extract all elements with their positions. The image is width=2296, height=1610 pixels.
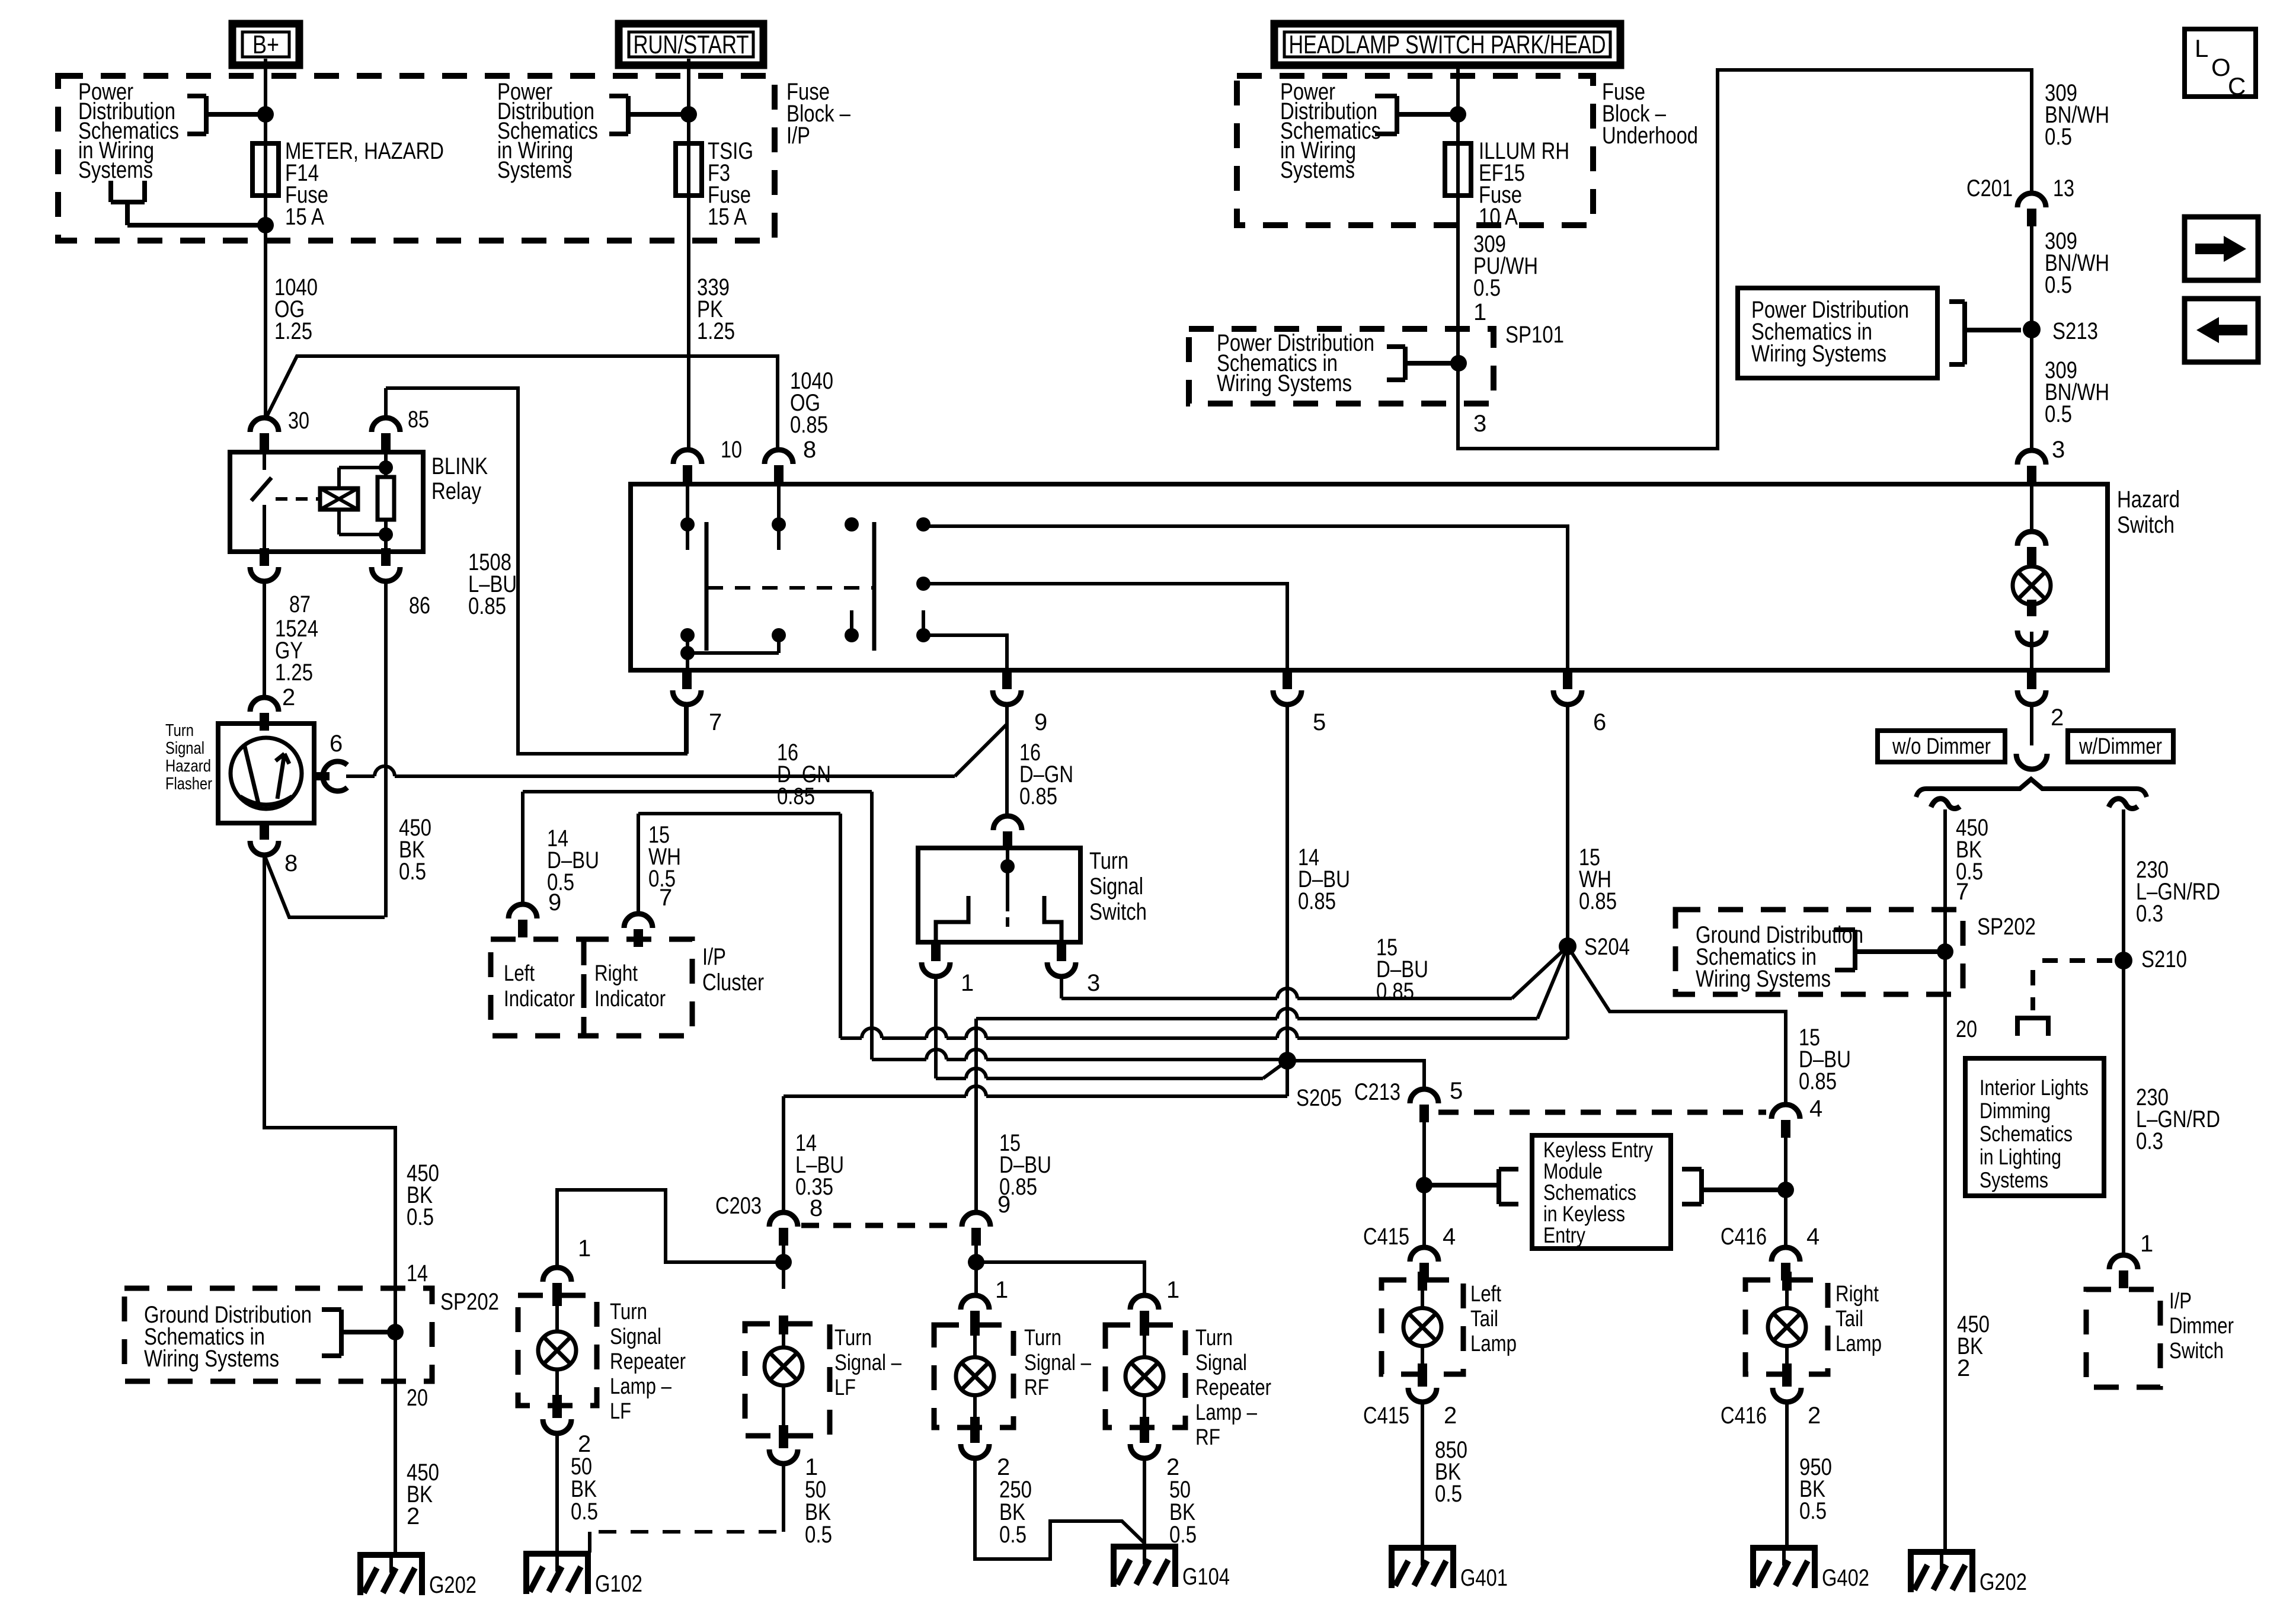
svg-text:1: 1 bbox=[2140, 1231, 2153, 1257]
svg-text:BLINK: BLINK bbox=[431, 453, 488, 479]
svg-text:2: 2 bbox=[407, 1503, 420, 1529]
svg-text:0.85: 0.85 bbox=[468, 593, 506, 619]
svg-text:Switch: Switch bbox=[1089, 899, 1147, 925]
svg-text:15 A: 15 A bbox=[708, 204, 747, 230]
svg-text:Systems: Systems bbox=[1280, 157, 1355, 183]
svg-text:S210: S210 bbox=[2141, 946, 2187, 972]
svg-text:Lamp: Lamp bbox=[1470, 1331, 1517, 1356]
svg-text:RF: RF bbox=[1024, 1375, 1049, 1400]
svg-text:3: 3 bbox=[2052, 437, 2065, 463]
svg-text:1: 1 bbox=[995, 1277, 1008, 1303]
svg-text:4: 4 bbox=[1443, 1224, 1456, 1250]
svg-text:1: 1 bbox=[578, 1235, 591, 1262]
svg-text:4: 4 bbox=[1806, 1224, 1819, 1250]
svg-text:0.85: 0.85 bbox=[1799, 1068, 1837, 1094]
svg-text:Systems: Systems bbox=[497, 157, 572, 183]
svg-text:2: 2 bbox=[1808, 1403, 1821, 1429]
svg-text:0.5: 0.5 bbox=[1435, 1481, 1462, 1507]
svg-text:C416: C416 bbox=[1721, 1403, 1767, 1429]
svg-text:Wiring Systems: Wiring Systems bbox=[144, 1346, 279, 1372]
svg-text:5: 5 bbox=[1450, 1078, 1463, 1104]
svg-text:Tail: Tail bbox=[1470, 1307, 1498, 1331]
svg-text:0.5: 0.5 bbox=[399, 859, 426, 885]
svg-text:Relay: Relay bbox=[431, 478, 481, 504]
svg-text:0.5: 0.5 bbox=[571, 1499, 598, 1525]
svg-text:S213: S213 bbox=[2052, 318, 2098, 344]
svg-text:Entry: Entry bbox=[1543, 1223, 1585, 1247]
svg-text:Turn: Turn bbox=[165, 721, 194, 740]
svg-text:4: 4 bbox=[1809, 1096, 1822, 1122]
svg-text:0.5: 0.5 bbox=[2045, 124, 2072, 150]
svg-text:C416: C416 bbox=[1721, 1224, 1767, 1250]
svg-text:0.3: 0.3 bbox=[2136, 1128, 2163, 1154]
svg-text:Systems: Systems bbox=[1980, 1168, 2048, 1192]
svg-text:2: 2 bbox=[282, 684, 295, 710]
svg-text:Turn: Turn bbox=[1024, 1326, 1061, 1350]
svg-text:Turn: Turn bbox=[610, 1299, 647, 1324]
svg-text:Right: Right bbox=[1835, 1282, 1879, 1307]
svg-text:Left: Left bbox=[1470, 1282, 1501, 1307]
svg-text:SP202: SP202 bbox=[1977, 914, 2036, 940]
svg-text:0.3: 0.3 bbox=[2136, 901, 2163, 927]
svg-text:Keyless Entry: Keyless Entry bbox=[1543, 1138, 1653, 1162]
svg-text:Signal: Signal bbox=[1089, 873, 1143, 900]
svg-text:15 A: 15 A bbox=[285, 204, 324, 230]
svg-text:2: 2 bbox=[1444, 1403, 1457, 1429]
svg-text:13: 13 bbox=[2053, 175, 2074, 201]
svg-text:3: 3 bbox=[1473, 411, 1486, 437]
svg-text:HEADLAMP SWITCH PARK/HEAD: HEADLAMP SWITCH PARK/HEAD bbox=[1289, 30, 1606, 59]
svg-text:0.5: 0.5 bbox=[1169, 1522, 1197, 1548]
svg-text:9: 9 bbox=[1034, 709, 1047, 735]
svg-text:10: 10 bbox=[721, 437, 742, 463]
svg-text:Cluster: Cluster bbox=[702, 969, 764, 996]
svg-text:7: 7 bbox=[709, 709, 722, 735]
svg-text:10 A: 10 A bbox=[1479, 204, 1518, 230]
svg-text:B+: B+ bbox=[252, 30, 279, 59]
svg-text:Interior Lights: Interior Lights bbox=[1980, 1076, 2089, 1100]
svg-text:Module: Module bbox=[1543, 1159, 1603, 1183]
svg-text:85: 85 bbox=[408, 406, 429, 433]
svg-text:2: 2 bbox=[1957, 1355, 1970, 1381]
svg-text:Indicator: Indicator bbox=[504, 987, 575, 1012]
svg-text:Signal: Signal bbox=[165, 739, 204, 758]
svg-text:Wiring Systems: Wiring Systems bbox=[1696, 966, 1831, 992]
svg-text:1: 1 bbox=[1473, 299, 1486, 325]
svg-text:S205: S205 bbox=[1296, 1085, 1342, 1111]
svg-text:0.85: 0.85 bbox=[790, 412, 828, 438]
svg-text:8: 8 bbox=[803, 437, 816, 463]
svg-text:1.25: 1.25 bbox=[274, 318, 312, 344]
svg-text:Turn: Turn bbox=[834, 1326, 872, 1350]
svg-text:0.5: 0.5 bbox=[648, 866, 676, 892]
svg-text:w/o Dimmer: w/o Dimmer bbox=[1892, 734, 1991, 759]
svg-text:G402: G402 bbox=[1822, 1565, 1869, 1591]
svg-text:Signal: Signal bbox=[610, 1324, 661, 1349]
svg-text:0.5: 0.5 bbox=[999, 1522, 1027, 1548]
svg-text:Signal –: Signal – bbox=[1024, 1350, 1092, 1375]
svg-text:Underhood: Underhood bbox=[1602, 123, 1698, 149]
svg-text:6: 6 bbox=[330, 731, 343, 757]
svg-text:Flasher: Flasher bbox=[165, 774, 212, 793]
svg-text:S204: S204 bbox=[1584, 934, 1630, 960]
svg-text:G102: G102 bbox=[595, 1571, 642, 1597]
svg-text:Tail: Tail bbox=[1835, 1307, 1863, 1331]
svg-text:C201: C201 bbox=[1966, 175, 2013, 201]
svg-text:8: 8 bbox=[284, 850, 298, 876]
svg-text:RF: RF bbox=[1195, 1425, 1220, 1450]
svg-text:in Keyless: in Keyless bbox=[1543, 1202, 1625, 1226]
svg-text:0.35: 0.35 bbox=[795, 1174, 833, 1200]
svg-text:w/Dimmer: w/Dimmer bbox=[2078, 734, 2162, 759]
svg-text:0.5: 0.5 bbox=[407, 1204, 434, 1230]
svg-text:5: 5 bbox=[1313, 709, 1326, 735]
svg-text:L: L bbox=[2195, 34, 2208, 62]
svg-text:C203: C203 bbox=[715, 1193, 762, 1219]
svg-text:1.25: 1.25 bbox=[275, 660, 313, 686]
svg-text:Schematics: Schematics bbox=[1543, 1180, 1636, 1205]
svg-text:Lamp –: Lamp – bbox=[610, 1374, 672, 1399]
svg-text:7: 7 bbox=[1956, 879, 1969, 905]
svg-text:Schematics: Schematics bbox=[1980, 1122, 2073, 1146]
svg-text:1: 1 bbox=[961, 970, 974, 996]
svg-text:Right: Right bbox=[594, 961, 638, 986]
svg-text:G202: G202 bbox=[429, 1572, 477, 1598]
svg-text:Dimmer: Dimmer bbox=[2169, 1314, 2234, 1339]
svg-text:20: 20 bbox=[407, 1385, 428, 1411]
svg-text:14: 14 bbox=[407, 1260, 428, 1286]
svg-text:86: 86 bbox=[409, 593, 430, 619]
svg-text:Left: Left bbox=[504, 961, 535, 986]
svg-text:Wiring Systems: Wiring Systems bbox=[1217, 370, 1352, 396]
svg-text:I/P: I/P bbox=[702, 944, 726, 970]
svg-text:0.85: 0.85 bbox=[777, 783, 815, 809]
svg-text:0.85: 0.85 bbox=[1376, 978, 1414, 1004]
svg-text:I/P: I/P bbox=[2169, 1289, 2192, 1314]
svg-text:30: 30 bbox=[288, 408, 309, 434]
svg-text:0.5: 0.5 bbox=[1473, 275, 1501, 301]
svg-text:Lamp –: Lamp – bbox=[1195, 1400, 1258, 1425]
svg-text:Switch: Switch bbox=[2169, 1339, 2224, 1363]
svg-text:1: 1 bbox=[1166, 1277, 1179, 1303]
svg-text:2: 2 bbox=[2051, 705, 2064, 731]
svg-text:G104: G104 bbox=[1182, 1564, 1230, 1590]
svg-text:LF: LF bbox=[610, 1399, 631, 1424]
svg-text:Turn: Turn bbox=[1089, 848, 1128, 874]
svg-text:0.85: 0.85 bbox=[1298, 888, 1336, 914]
svg-text:G401: G401 bbox=[1460, 1565, 1508, 1591]
svg-text:C415: C415 bbox=[1363, 1403, 1409, 1429]
svg-text:Indicator: Indicator bbox=[594, 987, 666, 1012]
svg-text:0.5: 0.5 bbox=[2045, 401, 2072, 427]
svg-text:Systems: Systems bbox=[78, 157, 153, 183]
svg-text:Turn: Turn bbox=[1195, 1326, 1233, 1350]
svg-text:0.85: 0.85 bbox=[1019, 783, 1057, 809]
svg-text:G202: G202 bbox=[1980, 1569, 2027, 1595]
svg-text:0.85: 0.85 bbox=[999, 1174, 1037, 1200]
svg-text:I/P: I/P bbox=[786, 123, 810, 149]
svg-text:C: C bbox=[2228, 72, 2246, 100]
svg-text:Signal: Signal bbox=[1195, 1350, 1247, 1375]
svg-text:1.25: 1.25 bbox=[697, 318, 735, 344]
svg-text:0.5: 0.5 bbox=[1799, 1498, 1827, 1524]
svg-text:SP202: SP202 bbox=[440, 1289, 499, 1315]
svg-text:C415: C415 bbox=[1363, 1224, 1409, 1250]
svg-text:Dimming: Dimming bbox=[1980, 1099, 2051, 1123]
svg-text:0.85: 0.85 bbox=[1579, 888, 1617, 914]
svg-text:0.5: 0.5 bbox=[547, 869, 574, 895]
svg-text:in Lighting: in Lighting bbox=[1980, 1145, 2061, 1169]
svg-text:SP101: SP101 bbox=[1505, 322, 1564, 348]
svg-text:6: 6 bbox=[1593, 709, 1606, 735]
svg-text:RUN/START: RUN/START bbox=[634, 30, 749, 59]
svg-text:3: 3 bbox=[1087, 970, 1100, 996]
svg-text:Switch: Switch bbox=[2117, 512, 2175, 538]
svg-text:Hazard: Hazard bbox=[165, 757, 211, 776]
svg-text:Signal –: Signal – bbox=[834, 1350, 902, 1375]
svg-text:Repeater: Repeater bbox=[1195, 1375, 1271, 1400]
svg-text:LF: LF bbox=[834, 1375, 856, 1400]
svg-text:Repeater: Repeater bbox=[610, 1349, 686, 1374]
svg-text:20: 20 bbox=[1956, 1016, 1977, 1042]
svg-text:Lamp: Lamp bbox=[1835, 1331, 1882, 1356]
svg-text:0.5: 0.5 bbox=[805, 1522, 832, 1548]
svg-text:C213: C213 bbox=[1354, 1079, 1400, 1105]
svg-text:87: 87 bbox=[289, 591, 311, 617]
svg-text:Wiring Systems: Wiring Systems bbox=[1751, 341, 1886, 367]
svg-text:Hazard: Hazard bbox=[2117, 486, 2180, 513]
svg-text:0.5: 0.5 bbox=[2045, 272, 2072, 298]
